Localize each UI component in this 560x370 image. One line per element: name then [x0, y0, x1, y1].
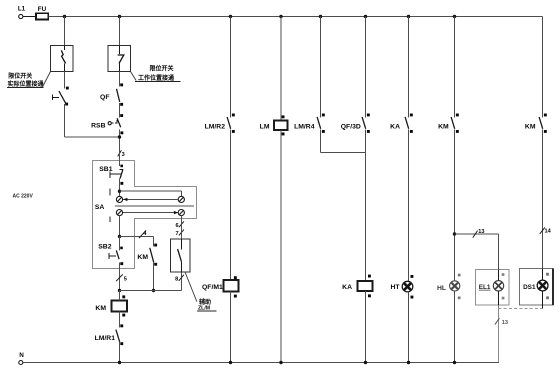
enclosure control panel: [93, 161, 197, 269]
svg-text:5: 5: [124, 277, 127, 283]
selector SA pole tops: [116, 196, 184, 202]
svg-text:辅助: 辅助: [199, 298, 211, 306]
wire SA contact row 1: [123, 198, 178, 201]
lamp DS1: [537, 269, 549, 309]
wire LM/R1 to N bus: [119, 342, 121, 362]
svg-text:KM: KM: [95, 305, 106, 312]
svg-text:SA: SA: [95, 204, 105, 211]
coil QF/M1: [202, 276, 238, 297]
wire branch4 drop: [280, 17, 282, 121]
selector SA linkage (dashed): [95, 189, 110, 223]
wire branch8 down: [454, 130, 456, 281]
wire to KM aux: [120, 237, 154, 247]
svg-text:8: 8: [175, 277, 178, 283]
svg-text:LM/R1: LM/R1: [95, 335, 116, 342]
svg-text:KA: KA: [342, 284, 352, 291]
pushbutton SB2: [98, 243, 123, 265]
limit switch box SQ2 (work position): [108, 46, 131, 72]
svg-text:13: 13: [502, 320, 508, 326]
coil KA: [342, 275, 372, 298]
wire branch7 to N bus: [408, 292, 410, 363]
wire branch1 drop: [64, 17, 66, 46]
svg-text:DS1: DS1: [523, 284, 536, 291]
svg-text:限位开关: 限位开关: [150, 65, 174, 73]
svg-text:FU: FU: [38, 6, 47, 13]
wire branch3 to N bus: [230, 292, 232, 363]
wire KM coil bottom: [119, 312, 121, 328]
svg-text:KA: KA: [390, 123, 400, 130]
node SB2 branch junction: [118, 235, 121, 238]
node lamp feed junction: [453, 232, 456, 235]
svg-text:3: 3: [122, 152, 125, 158]
label limit switch actual position (Chinese): [7, 72, 51, 89]
wire branch3 drop: [230, 17, 232, 118]
contact QF/3D: [341, 114, 370, 133]
svg-text:N: N: [19, 352, 24, 359]
svg-text:13: 13: [478, 229, 484, 235]
wire to EL1 with number 13: [455, 229, 499, 269]
svg-text:6: 6: [175, 223, 178, 229]
svg-text:HT: HT: [390, 284, 400, 291]
switch QF: [100, 83, 123, 105]
svg-text:14: 14: [545, 229, 552, 235]
wire branch9 drop (bus corner): [542, 17, 544, 118]
coil LM: [260, 115, 288, 135]
wire KM aux down: [153, 263, 155, 291]
wire branch8 drop: [454, 17, 456, 118]
lamp HL: [437, 274, 461, 300]
wire QF-aux branch up: [181, 272, 183, 291]
wire branch3 down: [230, 130, 232, 280]
wire number 3: [118, 150, 125, 158]
wire branch6 down: [365, 130, 367, 282]
node top bus junctions: [63, 15, 456, 18]
bell HT: [390, 275, 413, 299]
contact LM/R2: [205, 114, 235, 133]
wire SA contact row 2: [123, 211, 178, 214]
svg-text:KM: KM: [137, 254, 148, 261]
node RSB junction: [118, 135, 121, 138]
wire branch2 drop: [119, 17, 121, 46]
fuse FU: [23, 6, 48, 20]
wire branch5 drop: [320, 17, 322, 118]
node lower junction row: [118, 289, 182, 292]
terminal N: [19, 352, 24, 364]
wire lamp return (dashed): [499, 305, 543, 363]
selector SA pole bottoms: [116, 210, 184, 216]
label QF aux leader (Chinese): [185, 272, 217, 312]
contact LM/R4: [294, 114, 325, 133]
wire branch2 to QF: [119, 72, 121, 87]
contact KM far right: [525, 114, 547, 133]
pushbutton RSB (reset): [91, 114, 123, 134]
wire branch2 below RSB: [119, 129, 121, 151]
wire KM coil top: [119, 291, 121, 301]
wire numbers 6 and 7: [175, 221, 183, 237]
node bottom bus junctions: [118, 361, 456, 364]
wire number 5: [116, 274, 127, 282]
svg-text:QF: QF: [100, 94, 109, 101]
svg-text:LM/R4: LM/R4: [294, 123, 315, 130]
wire SB1 to SA: [119, 179, 121, 197]
contact LM/R1: [95, 324, 124, 345]
svg-text:HL: HL: [437, 285, 446, 292]
svg-text:RSB: RSB: [91, 122, 105, 129]
svg-text:KM: KM: [438, 123, 449, 130]
wire branch4 to N bus: [280, 130, 282, 362]
wire branch7 down: [408, 130, 410, 282]
box QF auxiliary contact: [171, 239, 191, 272]
wire SA to QF-aux box: [180, 216, 182, 239]
svg-text:LM/R2: LM/R2: [205, 123, 226, 130]
label AC 220V: [13, 194, 34, 200]
wire SA contact row mid: [115, 205, 194, 207]
label limit switch work position (Chinese): [131, 65, 181, 83]
wire branch2 into panel: [119, 152, 121, 167]
svg-text:QF/3D: QF/3D: [341, 123, 361, 130]
limit switch box SQ1 (actual position): [51, 46, 74, 72]
wire branch6 to N bus: [365, 291, 367, 362]
pushbutton SB1: [99, 165, 123, 185]
coil KM: [95, 295, 127, 316]
contact KM right: [438, 114, 459, 133]
wire SB2 drop: [119, 237, 121, 291]
wire branch1 down: [64, 104, 66, 137]
svg-text:LM: LM: [260, 123, 270, 130]
wire branch8 to N bus: [454, 291, 456, 363]
svg-text:L1: L1: [18, 6, 26, 13]
wire branch1 to contact: [64, 72, 66, 89]
svg-text:AC 220V: AC 220V: [13, 194, 34, 200]
wire branch1 to RSB node: [65, 136, 120, 138]
svg-text:SB1: SB1: [99, 166, 112, 173]
wire number 4: [139, 230, 147, 238]
wire branch6 drop: [365, 17, 367, 118]
wire SA top link: [120, 191, 182, 196]
contact KM auxiliary (seal-in): [137, 244, 157, 266]
svg-text:EL1: EL1: [479, 284, 491, 291]
luminaire box DS1: [520, 269, 554, 305]
luminaire box EL1: [476, 269, 510, 305]
wire SA to lower node: [119, 216, 121, 237]
svg-text:限位开关: 限位开关: [8, 72, 32, 80]
terminal L1: [18, 6, 26, 19]
wire branch2 QF to RSB: [119, 103, 121, 117]
wire number 13 lower: [495, 318, 508, 326]
wire branch5 to merge: [321, 130, 366, 153]
node SA top junction: [118, 190, 121, 193]
svg-text:KM: KM: [525, 123, 536, 130]
wire bottom bus N: [23, 362, 499, 364]
lamp EL1: [493, 269, 504, 305]
wire top bus L1: [49, 16, 543, 18]
wire number 8: [175, 275, 184, 283]
wire branch7 drop: [408, 17, 410, 118]
svg-text:QF/M1: QF/M1: [202, 284, 223, 291]
wire branch9 down: [542, 130, 544, 269]
contact KA: [390, 114, 413, 133]
wire number 14: [540, 227, 552, 234]
svg-text:7: 7: [175, 231, 178, 237]
svg-text:SB2: SB2: [98, 243, 111, 250]
pushbutton contact under SQ1: [52, 87, 68, 106]
